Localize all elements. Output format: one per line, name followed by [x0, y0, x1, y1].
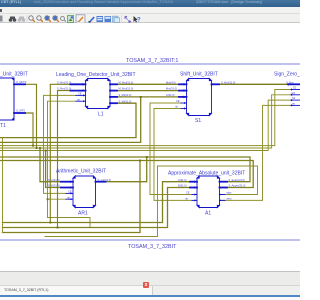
partial clipped icon	[0, 16, 3, 22]
wire T1 pin1 drop	[25, 84, 37, 148]
zoom cursor icon	[61, 17, 66, 22]
wire A1.R3 feedback loop	[45, 166, 258, 237]
svg-text:A1: A1	[205, 211, 211, 217]
wire T1 pin2 drop	[25, 113, 33, 146]
svg-text:S_B(31:0): S_B(31:0)	[48, 184, 60, 188]
copy-ish light icon	[113, 16, 120, 22]
svg-text:Arithmetic_Unit_32BIT: Arithmetic_Unit_32BIT	[56, 169, 106, 175]
svg-text:rst: rst	[67, 195, 70, 199]
help icon	[134, 16, 142, 24]
Sign_Zero pin labels	[286, 80, 297, 105]
svg-text:S_Mnt: S_Mnt	[286, 80, 294, 84]
A1 pin labels	[178, 178, 246, 201]
wire riser x140 from row EB to bottom bus	[3, 161, 141, 233]
wire L1.L2 drop	[58, 91, 71, 228]
wire CE net	[44, 95, 77, 193]
svg-text:rst: rst	[77, 97, 80, 101]
wire L1.R3 loop to left edge	[0, 97, 141, 142]
wire AR1.L2 feed	[46, 151, 61, 188]
svg-text:S1: S1	[195, 118, 201, 124]
wire L1.R3 to S1.L3	[141, 96, 187, 98]
svg-text:CE: CE	[186, 191, 190, 195]
wire rst net	[48, 101, 91, 227]
junction dots	[32, 96, 148, 229]
binoculars disabled icon	[18, 17, 26, 22]
AR1 pin labels	[48, 178, 111, 200]
svg-text:Sign_Zero_: Sign_Zero_	[274, 72, 300, 78]
wrench icon	[125, 16, 132, 23]
svg-text:A(31:0): A(31:0)	[178, 178, 187, 182]
svg-text:T1: T1	[0, 123, 6, 129]
wire S1 thin pin net to A1.L4	[154, 109, 192, 201]
wire feedback row EA to A1.R1 and AR1.R riser	[0, 157, 250, 182]
svg-text:rst: rst	[185, 197, 188, 201]
svg-text:Mnt(31:0): Mnt(31:0)	[166, 87, 177, 91]
svg-text:TOSAM_3_7_32BIT:1: TOSAM_3_7_32BIT:1	[126, 58, 178, 64]
wire L1.R4 loop to left edge	[0, 103, 136, 137]
wire left edge vertical	[2, 138, 4, 233]
svg-text:CE: CE	[78, 92, 82, 96]
wire long net to Sign pin3	[0, 100, 291, 150]
svg-text:S_Mnt(31:0): S_Mnt(31:0)	[57, 87, 71, 91]
wire AR1.R riser	[96, 157, 147, 182]
svg-text:CE: CE	[68, 190, 72, 194]
svg-text:S_Mt(31:0): S_Mt(31:0)	[119, 93, 132, 97]
svg-text:AR1: AR1	[78, 211, 88, 217]
wire rst branch to AR1.L4	[48, 198, 67, 200]
wire bottom bus to A1.L1	[3, 182, 191, 223]
wire feedback row EB to A1.R2	[0, 161, 253, 188]
wire S1 thin pin net to A1.L3	[150, 103, 192, 195]
svg-text:rst1: rst1	[291, 91, 296, 95]
sheet frame bottom line	[0, 239, 300, 241]
svg-text:S_Mnt(31:0): S_Mnt(31:0)	[57, 80, 71, 84]
separator	[27, 15, 28, 23]
wire L1.L1 drop	[50, 84, 70, 222]
svg-text:TOSAM_3_7_32BIT: TOSAM_3_7_32BIT	[128, 244, 177, 250]
svg-text:Approximate_Absolute_unit_32BI: Approximate_Absolute_unit_32BIT	[168, 171, 245, 177]
zoom in icon	[29, 16, 35, 22]
binoculars icon	[9, 17, 17, 22]
svg-text:sign: sign	[227, 191, 232, 195]
wire L1.R1 to S1.L1	[117, 83, 187, 85]
wire S1.R to Sign pin0	[219, 83, 288, 85]
block L1	[71, 79, 118, 109]
wire A1.R4 to Sign pin4	[220, 105, 292, 200]
separator	[121, 15, 122, 23]
svg-text:Shift_Unit_32BIT: Shift_Unit_32BIT	[180, 72, 218, 78]
svg-text:S_Appro(31:0): S_Appro(31:0)	[229, 184, 246, 188]
svg-text:M_Mnt(31:0): M_Mnt(31:0)	[119, 80, 134, 84]
zoom full green icon	[68, 16, 74, 23]
svg-text:S_Mt(31:0): S_Mt(31:0)	[119, 99, 132, 103]
block A1	[190, 176, 227, 208]
zoom out icon	[37, 16, 43, 22]
net name icon	[105, 16, 112, 22]
wire bottom bus to A1.L2	[3, 188, 191, 228]
svg-text:rst: rst	[175, 105, 178, 109]
svg-text:S_Mnt(31:0): S_Mnt(31:0)	[221, 80, 235, 84]
svg-text:M_Mnt(31:0): M_Mnt(31:0)	[119, 87, 134, 91]
wire long net to Sign pin1	[0, 90, 291, 146]
block AR1	[61, 176, 106, 208]
svg-text:B(31:0): B(31:0)	[178, 184, 187, 188]
wire L1.R2 to S1.L2	[117, 90, 187, 92]
svg-text:S_Exact(31:0): S_Exact(31:0)	[229, 178, 246, 182]
svg-text:O_MnTS: O_MnTS	[16, 80, 27, 84]
S1 pin labels	[166, 80, 235, 108]
svg-text:O_MTS: O_MTS	[16, 109, 25, 113]
zoom fit icon	[53, 16, 59, 22]
svg-text:_Unit_32BIT: _Unit_32BIT	[0, 72, 28, 78]
svg-text:Leading_One_Detector_Unit_32BI: Leading_One_Detector_Unit_32BIT	[56, 72, 136, 78]
svg-text:S1: S1	[293, 86, 297, 90]
svg-text:S_out(31:0): S_out(31:0)	[98, 178, 112, 182]
block S1	[179, 79, 219, 116]
pressed select tool icon	[76, 15, 85, 23]
block Sign_Zero (clipped at right)	[288, 83, 300, 107]
zoom selection icon	[45, 16, 51, 22]
wire tool icon	[89, 17, 95, 23]
bus tool icon	[97, 16, 104, 22]
svg-text:S_A(31:0): S_A(31:0)	[48, 178, 60, 182]
L1 pin labels	[57, 80, 133, 103]
svg-text:S2: S2	[292, 96, 296, 100]
svg-text:zero: zero	[227, 197, 233, 201]
svg-text:rst: rst	[292, 102, 295, 106]
svg-text:CE: CE	[176, 99, 180, 103]
wire long net to Sign pin2	[0, 95, 291, 148]
block T1 (clipped at left edge)	[0, 78, 25, 120]
svg-text:S(31:0): S(31:0)	[166, 93, 175, 97]
svg-text:Mnt(4:0): Mnt(4:0)	[166, 80, 176, 84]
wire AR1.L1 feed	[40, 148, 61, 182]
sheet frame top line	[0, 63, 300, 65]
svg-text:L1: L1	[98, 112, 104, 118]
